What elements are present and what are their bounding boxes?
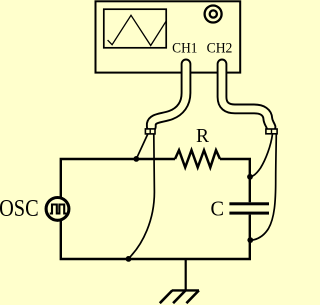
svg-text:OSC: OSC [0, 195, 39, 222]
svg-text:CH1: CH1 [172, 40, 197, 57]
svg-text:C: C [210, 198, 224, 220]
svg-text:CH2: CH2 [207, 40, 233, 57]
svg-text:R: R [196, 125, 210, 147]
